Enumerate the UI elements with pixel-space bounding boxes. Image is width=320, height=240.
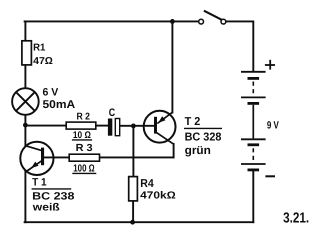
wire node B down to R4 (132, 126, 134, 177)
wire T1 base to R3 (43, 156, 69, 158)
wire R1 to lamp (24, 65, 26, 88)
wire bottom rail (25, 221, 254, 223)
lamp 6V 50mA (12, 87, 75, 115)
battery cell 2 short plate (248, 102, 260, 105)
wire C to T2 base (120, 125, 154, 127)
T1 emitter arrow (31, 162, 39, 169)
wire top rail right to battery (226, 21, 253, 71)
battery cell 1 short plate (248, 77, 260, 80)
T1 label (32, 176, 75, 213)
junction dot top rail / T2 emitter (170, 19, 175, 24)
svg-text:R 3: R 3 (76, 143, 93, 154)
T2 emitter arrow (158, 116, 166, 123)
battery BT1 9V (241, 72, 266, 170)
wire battery minus to bottom rail (252, 171, 254, 222)
wire top rail left (25, 20, 199, 22)
wire R2 to C (96, 125, 108, 127)
svg-text:470kΩ: 470kΩ (140, 191, 176, 202)
svg-text:3.21.: 3.21. (283, 211, 309, 227)
battery cell 1 long plate (241, 71, 266, 73)
resistor R2 (66, 112, 96, 142)
transistor T2 (144, 111, 176, 144)
svg-text:47Ω: 47Ω (33, 56, 53, 67)
svg-text:T 2: T 2 (185, 116, 201, 128)
node A junction dot (23, 123, 28, 128)
battery dashed link 1 (252, 82, 254, 96)
T2 emitter line (157, 112, 172, 123)
wire T2 emitter up to top rail (171, 21, 173, 112)
node B junction dot (131, 124, 136, 129)
svg-text:C: C (109, 107, 115, 119)
svg-text:R4: R4 (140, 178, 154, 190)
wire left column top (24, 21, 26, 40)
junction dot bottom rail / R4 (130, 220, 135, 225)
battery cell 3 short plate (248, 143, 260, 146)
resistor R1 (22, 41, 53, 67)
battery link 2 solid (252, 105, 254, 139)
svg-text:grün: grün (185, 145, 211, 157)
battery plus sign (265, 60, 275, 70)
T1 emitter line (27, 161, 42, 171)
svg-text:BC 328: BC 328 (185, 131, 222, 143)
svg-text:R 2: R 2 (77, 112, 91, 123)
battery cell 4 short plate (248, 168, 260, 171)
T2 base bar (154, 117, 157, 134)
T1 base bar (41, 148, 44, 166)
wire lamp to T1 collector (24, 115, 26, 146)
svg-text:weiß: weiß (32, 201, 61, 213)
transistor T1 (20, 142, 53, 175)
svg-text:9 V: 9 V (267, 120, 279, 132)
svg-text:R1: R1 (33, 42, 46, 53)
wire R3 to T2 collector (100, 156, 174, 158)
capacitor C (108, 107, 120, 136)
T2 collector line (157, 133, 174, 145)
wire T2 collector drop (173, 144, 175, 158)
svg-text:T 1: T 1 (32, 176, 47, 188)
battery minus sign (265, 175, 275, 177)
switch S1 (199, 11, 226, 24)
svg-text:50mA: 50mA (43, 99, 76, 111)
battery cell 4 long plate (241, 163, 266, 165)
svg-text:6 V: 6 V (43, 87, 60, 99)
wire node A to R2 (25, 125, 66, 127)
wire T1 emitter to bottom rail (24, 171, 26, 223)
battery cell 3 long plate (241, 138, 266, 140)
switch lever (204, 11, 222, 20)
resistor R4 (129, 177, 176, 202)
battery dashed link 3 (252, 148, 254, 162)
wire R4 to bottom rail (132, 201, 134, 222)
resistor R3 (69, 143, 99, 175)
T1 collector line (25, 146, 41, 151)
battery cell 2 long plate (241, 96, 266, 98)
T2 label (184, 116, 222, 157)
